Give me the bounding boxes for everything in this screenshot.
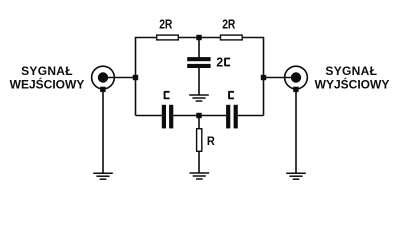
svg-text:SYGNAŁ: SYGNAŁ (21, 64, 73, 78)
svg-text:WEJŚCIOWY: WEJŚCIOWY (10, 77, 85, 92)
capacitor 2C bottom plate (187, 64, 210, 68)
wire: right vertical to output connector (264, 77, 297, 79)
input connector circle (92, 66, 115, 89)
junction node at bottom center (196, 113, 201, 118)
wire: input connector down to ground (102, 89, 104, 173)
junction node at top center (196, 35, 201, 40)
svg-text:SYGNAŁ: SYGNAŁ (325, 64, 377, 78)
output connector center pin (291, 72, 301, 82)
wire: resistor R down to ground (198, 152, 200, 174)
ground symbol under R (190, 173, 210, 179)
resistor R body (197, 129, 202, 152)
ground symbol right (output) (286, 173, 306, 179)
resistor 2R (left) body (157, 35, 179, 40)
label 2C: squared C glyph (224, 58, 230, 67)
wire: bottom node down to resistor R (198, 116, 200, 129)
wire: bottom segment from left vertical to capacitor C1 (136, 115, 165, 117)
wire: input connector to left vertical (103, 77, 136, 79)
wire: left vertical + top wire + right vertical of twin-T loop (136, 38, 264, 116)
output connector circle (285, 66, 308, 89)
resistor 2R (right) body (221, 35, 243, 40)
ground symbol under 2C (189, 95, 209, 101)
input connector center pin (98, 72, 108, 82)
capacitor C2 left plate (226, 105, 230, 129)
svg-text:2R: 2R (222, 18, 235, 32)
svg-text:2: 2 (216, 55, 223, 69)
capacitor C2 right plate (234, 105, 238, 129)
wire: capacitor 2C bottom plate down to ground (198, 68, 200, 95)
junction node at right vertical / output wire (261, 75, 266, 80)
wire: bottom segment between C1 and C2 (171, 115, 228, 117)
wire: top node down to capacitor 2C top plate (198, 38, 200, 58)
junction dot at output connector bottom (293, 87, 298, 92)
capacitor C1 left plate (162, 105, 166, 129)
label C (left): squared C glyph (164, 91, 170, 99)
junction node at left vertical / input wire (133, 75, 138, 80)
junction dot at input connector bottom (100, 87, 105, 92)
capacitor 2C top plate (187, 57, 210, 61)
ground symbol left (input) (93, 173, 113, 179)
capacitor C1 right plate (169, 105, 173, 129)
svg-text:R: R (207, 134, 215, 148)
svg-text:WYJŚCIOWY: WYJŚCIOWY (315, 77, 390, 92)
wire: output connector down to ground (295, 89, 297, 173)
label C (right): squared C glyph (228, 91, 234, 99)
wire: bottom segment from C2 to right vertical (236, 115, 264, 117)
svg-text:2R: 2R (159, 18, 172, 32)
